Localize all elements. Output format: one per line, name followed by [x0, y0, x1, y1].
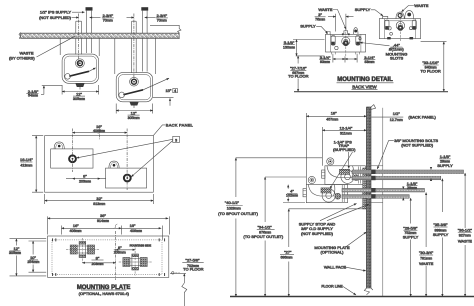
svg-text:29mm: 29mm — [407, 186, 417, 190]
supply pipe 2 cap — [141, 7, 148, 10]
fountain 1 unit rectangle — [51, 149, 93, 168]
fitting 2 vertical body — [132, 254, 139, 270]
svg-text:305mm: 305mm — [128, 116, 140, 120]
svg-text:(BY OTHERS): (BY OTHERS) — [9, 55, 35, 60]
upper unit bowl profile — [327, 166, 353, 178]
leader box3 to button1 — [77, 139, 173, 158]
svg-text:"40-1/2": "40-1/2" — [225, 200, 240, 205]
svg-text:3": 3" — [318, 12, 322, 17]
dim 36 / 914mm — [48, 216, 170, 234]
bolt hole ticks top-right — [159, 238, 164, 241]
fountain 2 centerline — [133, 14, 135, 79]
left dim 27 / 686mm — [288, 209, 290, 297]
upper unit supply stop — [353, 175, 359, 181]
unit2 supply stub — [383, 16, 388, 18]
fountain 2 bubbler — [130, 77, 139, 86]
svg-text:"27-7/16": "27-7/16" — [290, 66, 307, 71]
mounting plate bottom extension — [289, 208, 363, 210]
svg-text:2-3/4": 2-3/4" — [103, 13, 114, 18]
waste pipe 1 continuation below wall — [76, 38, 82, 54]
fountain 1 centerline — [71, 129, 73, 173]
dim 12-1/4 / 311mm — [321, 127, 323, 134]
svg-text:(NOT SUPPLIED): (NOT SUPPLIED) — [401, 142, 434, 147]
leader box3 to button2 — [131, 141, 173, 177]
svg-text:TO FLOOR: TO FLOOR — [420, 68, 440, 73]
supply pipe 1 below wall — [87, 38, 92, 53]
unit2 bubbler hump — [405, 11, 414, 19]
svg-text:16": 16" — [73, 223, 79, 228]
svg-text:"35-3/8": "35-3/8" — [433, 222, 448, 227]
svg-text:406mm: 406mm — [93, 129, 105, 133]
dim 32 / 813mm bottom — [45, 194, 154, 204]
right dim line upper supply 35-3/8 — [441, 179, 443, 297]
lower unit supply stop — [335, 193, 341, 199]
wall section (hatched band) — [21, 33, 180, 38]
svg-text:254mm: 254mm — [27, 260, 39, 264]
fitting 1 cross: horizontal body — [71, 246, 95, 253]
dim 16 / 406mm left span — [62, 226, 163, 240]
fitting 2 left hatched block — [123, 258, 130, 267]
floor reference line (back view) — [294, 91, 448, 93]
lower unit supply fitting (dark) — [321, 188, 331, 193]
dim 18 / 457mm — [305, 113, 307, 120]
svg-text:WASTE: WASTE — [414, 3, 428, 8]
unit1 bubbler hump — [353, 28, 358, 35]
datum hole at plate lower right — [172, 272, 174, 274]
svg-text:"29-5/8": "29-5/8" — [403, 225, 418, 230]
svg-text:SUPPLY: SUPPLY — [437, 163, 453, 168]
unit2 dark feet — [387, 37, 391, 39]
svg-text:406mm: 406mm — [70, 229, 82, 233]
wall cut lines at unit levels — [371, 166, 383, 203]
svg-text:TO FLOOR: TO FLOOR — [183, 267, 203, 272]
lower waste bolt through wall — [342, 188, 425, 192]
upper waste bolt through wall — [352, 170, 464, 174]
dim 4 / 102mm lower spout — [287, 185, 289, 202]
fountain 1 drain — [75, 83, 84, 87]
svg-text:BACK PANEL: BACK PANEL — [166, 123, 194, 128]
svg-text:76mm: 76mm — [315, 17, 325, 21]
fountain 2 unit rectangle — [106, 168, 147, 188]
svg-text:"34-1/2": "34-1/2" — [258, 225, 273, 230]
fitting 2 centerlines — [119, 261, 152, 263]
fitting 1 right hatched block — [88, 245, 95, 254]
unit1 trap — [342, 37, 350, 45]
bolt hole ticks bottom-left — [53, 273, 56, 276]
upper unit supply fitting (dark) — [340, 169, 350, 174]
dim 5-1/8 / 130mm — [293, 39, 325, 41]
svg-text:FLOOR LINE: FLOOR LINE — [321, 285, 343, 289]
fitting 2 top cap — [132, 254, 139, 257]
svg-text:WALL FACE: WALL FACE — [324, 265, 346, 270]
svg-text:1-1/8": 1-1/8" — [407, 181, 418, 186]
wall bottom break — [364, 288, 373, 295]
supply pipe 1 — [87, 11, 92, 34]
wall section (vertical hatched strip) — [367, 107, 371, 288]
svg-text:83mm: 83mm — [320, 60, 330, 64]
back panel outline — [45, 136, 154, 193]
svg-text:WASTE: WASTE — [318, 7, 332, 12]
svg-text:"27": "27" — [284, 250, 292, 255]
svg-text:2-3/4": 2-3/4" — [157, 13, 168, 18]
extension upper unit front — [321, 134, 323, 166]
spout outlet extension upper — [236, 157, 322, 159]
svg-text:(TO SPOUT OUTLET): (TO SPOUT OUTLET) — [218, 211, 259, 216]
svg-text:(SUPPLIED): (SUPPLIED) — [333, 147, 356, 152]
svg-text:781mm: 781mm — [420, 256, 432, 260]
svg-text:"27-5/8": "27-5/8" — [185, 257, 200, 262]
wall right break and step line — [150, 25, 181, 39]
dim 8 / 203mm middle — [72, 178, 100, 180]
fitting 1 top cap — [79, 242, 86, 245]
svg-text:1029mm: 1029mm — [227, 206, 241, 210]
spout outlet extension lower — [265, 176, 306, 178]
svg-text:4: 4 — [174, 89, 176, 93]
svg-text:203mm: 203mm — [114, 251, 126, 255]
fountain 1 basin outer — [62, 54, 99, 83]
fountain 2 button — [124, 175, 131, 182]
hidden line right of wall — [382, 108, 384, 297]
leader waste to pipe1 — [37, 36, 76, 57]
svg-text:305mm: 305mm — [9, 251, 21, 255]
svg-text:12-1/4": 12-1/4" — [340, 125, 353, 130]
svg-text:54mm: 54mm — [28, 94, 38, 98]
dim 12 / 305mm fountain2 — [116, 104, 153, 114]
svg-text:8": 8" — [96, 255, 100, 260]
unit1 drain hole — [335, 46, 338, 49]
lower unit bowl profile — [308, 184, 334, 196]
bolt nuts at wall face — [371, 170, 375, 174]
svg-text:SLOTS: SLOTS — [390, 55, 403, 60]
upper supply bolt through wall — [352, 176, 441, 180]
fountain 2 basin outer — [116, 73, 153, 102]
svg-text:SUPPLY: SUPPLY — [433, 232, 449, 237]
svg-text:"30-3/4": "30-3/4" — [419, 250, 434, 255]
unit1 left mounting slot — [331, 36, 335, 46]
unit2 left mounting slot — [385, 20, 389, 30]
panel centerline — [99, 129, 101, 141]
unit1 slot stubs below box — [332, 52, 360, 54]
svg-text:457mm: 457mm — [326, 117, 338, 121]
lower unit spout front — [303, 189, 306, 197]
boxed 3 — [173, 136, 180, 142]
lower unit trap circle — [322, 189, 335, 202]
svg-text:BACK VIEW: BACK VIEW — [352, 84, 377, 89]
dim 8 / 203mm fitting1 to centerline — [82, 262, 115, 264]
svg-text:813mm: 813mm — [93, 202, 105, 206]
svg-text:3: 3 — [175, 138, 177, 142]
bolt hole ticks bottom-right — [159, 273, 164, 276]
dim 27-7/16 / 697mm TO FLOOR — [297, 56, 299, 92]
wall left break — [19, 32, 21, 39]
left dim 40-1/2 to spout outlet — [235, 158, 237, 297]
unit1 right mounting slot — [356, 36, 360, 46]
mounting plate outline — [48, 236, 169, 277]
supply pipe 2 — [142, 11, 147, 34]
right dim line upper waste 36-1/2 — [464, 173, 466, 297]
unit2 right mounting slot — [412, 20, 416, 30]
svg-text:SUPPLY: SUPPLY — [403, 235, 419, 240]
plate centerline — [115, 231, 117, 280]
svg-text:18": 18" — [331, 111, 337, 116]
dim 16 / 406mm top — [72, 132, 127, 134]
svg-text:SUPPLY: SUPPLY — [355, 7, 371, 12]
waste pipe 2 continuation — [132, 38, 137, 73]
dim 33-1/16 / 840mm TO FLOOR — [443, 42, 445, 92]
unit1 trap centerline — [345, 29, 347, 57]
dim 12 / 305mm fountain1 — [62, 85, 99, 95]
svg-text:70mm: 70mm — [103, 19, 113, 23]
dim 12 / 305mm plate height — [10, 239, 47, 276]
upper unit side profile — [325, 166, 366, 185]
svg-text:(OPTIONAL, HAWS 6700.4): (OPTIONAL, HAWS 6700.4) — [79, 291, 130, 296]
extension 18in line down — [305, 120, 307, 185]
svg-text:311mm: 311mm — [340, 131, 352, 135]
fountain 2 centerline — [126, 129, 128, 191]
supply pipe 1 cap — [86, 7, 93, 10]
svg-text:15°: 15° — [165, 88, 171, 93]
fitting 1 vertical body — [79, 242, 86, 258]
dim 3-1/4 right — [356, 54, 358, 63]
unit1 supply elbow — [327, 32, 331, 35]
svg-text:12.7mm: 12.7mm — [390, 118, 403, 122]
svg-text:8": 8" — [118, 245, 122, 250]
unit2 drain holes — [388, 27, 391, 30]
supply pipe 2 below wall — [142, 38, 147, 71]
15 deg arrow to ref line — [169, 98, 171, 105]
unit2 right extension — [421, 41, 447, 43]
lower unit side profile — [306, 184, 347, 202]
bolt hole rows (inner dotted rect) — [52, 240, 162, 275]
svg-text:70mm: 70mm — [157, 19, 167, 23]
svg-text:1-1/8": 1-1/8" — [440, 154, 451, 159]
svg-text:32": 32" — [96, 196, 102, 201]
break symbol — [182, 283, 187, 306]
svg-text:TO FLOOR: TO FLOOR — [288, 74, 308, 79]
waste pipe 2 — [132, 21, 137, 33]
fountain 1 button — [69, 155, 76, 162]
right dim line lower supply 29-5/8 — [410, 198, 412, 297]
15 deg reference line — [143, 78, 169, 90]
fountain 1 lever — [69, 71, 89, 76]
fountain 1 bubbler hump — [54, 142, 64, 149]
fitting 2 bottom cap — [132, 267, 139, 270]
svg-text:1/2" IPS SUPPLY: 1/2" IPS SUPPLY — [40, 10, 71, 15]
svg-text:36": 36" — [100, 213, 106, 218]
dim 10 / 254mm hole rows — [29, 241, 47, 272]
unit1 slot bottom extension — [296, 55, 325, 57]
dim 2-1/8 / 54mm — [42, 85, 62, 87]
svg-text:FOUNTAIN SIDE: FOUNTAIN SIDE — [130, 243, 152, 247]
right dim line lower waste 30-3/4 — [425, 193, 427, 297]
dim 3-1/4 left — [333, 54, 345, 63]
svg-text:686mm: 686mm — [281, 256, 293, 260]
fitting 2 cross: horizontal body — [123, 259, 147, 266]
svg-text:"33-1/16": "33-1/16" — [422, 60, 439, 65]
lower unit rear bracket — [342, 185, 344, 202]
svg-text:MOUNTING DETAIL: MOUNTING DETAIL — [337, 77, 393, 83]
dim 27-5/8 / 702mm TO FLOOR — [170, 273, 186, 275]
svg-text:914mm: 914mm — [97, 219, 109, 223]
svg-text:(OPTIONAL): (OPTIONAL) — [321, 250, 345, 255]
dim 1/2 12.7mm back panel — [371, 116, 403, 118]
fitting 2 right hatched block — [140, 258, 147, 267]
svg-text:(NOT SUPPLIED): (NOT SUPPLIED) — [39, 15, 72, 20]
svg-text:16-1/4": 16-1/4" — [20, 157, 33, 162]
fountain 2 drain — [130, 102, 139, 106]
floor line — [230, 296, 474, 298]
svg-text:130mm: 130mm — [283, 45, 295, 49]
upper unit trap circle — [341, 170, 354, 183]
fountain 1 housing edges — [60, 38, 99, 56]
boxed 4 — [173, 89, 178, 93]
upper unit spout front — [322, 170, 325, 178]
fountain 1 centerline — [78, 14, 80, 67]
svg-text:5-1/8": 5-1/8" — [284, 40, 295, 45]
svg-text:"36-1/2": "36-1/2" — [458, 227, 473, 232]
fitting 1 centerlines — [66, 249, 99, 251]
dim 16 / 406mm right span — [121, 227, 161, 229]
fountain 1 bubbler — [76, 59, 85, 68]
svg-text:SUPPLY: SUPPLY — [300, 24, 316, 29]
dim 16-1/4 / 413mm left — [32, 136, 43, 193]
svg-text:203mm: 203mm — [92, 262, 104, 266]
leader to supply pipe 1 — [72, 11, 85, 13]
lower unit bubbler — [308, 176, 315, 183]
fountain 2 bubbler hump — [109, 161, 119, 168]
svg-text:927mm: 927mm — [459, 234, 471, 238]
fitting 1 left hatched block — [70, 245, 77, 254]
fountain 2 lever — [123, 90, 143, 95]
svg-text:102mm: 102mm — [286, 193, 298, 197]
dim 2-3/4 70mm unit1 — [72, 17, 79, 19]
svg-text:1/2": 1/2" — [393, 111, 401, 116]
svg-text:406mm: 406mm — [130, 229, 142, 233]
unit2 trap centerline — [399, 14, 401, 42]
fountain 2 basin inner rim — [118, 75, 150, 100]
dim 2-3/4 70mm unit2 — [127, 17, 134, 19]
left dim 34-1/2 to spout outlet — [264, 177, 266, 297]
svg-text:16": 16" — [130, 223, 136, 228]
15 deg horizontal ref line — [153, 96, 174, 98]
dim 8 / 203mm centerline to fitting2 — [116, 249, 136, 251]
unit2 body (upper unit, back view) — [379, 19, 420, 39]
svg-text:(NOT SUPPLIED): (NOT SUPPLIED) — [301, 231, 334, 236]
upper unit bubbler — [327, 158, 334, 165]
svg-text:WASTE: WASTE — [458, 238, 472, 243]
fountain 1 basin inner rim — [64, 56, 96, 81]
bolt hole ticks top-left — [53, 238, 56, 241]
svg-text:8": 8" — [83, 173, 87, 178]
svg-text:305mm: 305mm — [73, 97, 85, 101]
svg-text:83mm: 83mm — [365, 60, 375, 64]
unit1 waste stub — [344, 31, 348, 35]
svg-text:(BACK PANEL): (BACK PANEL) — [408, 114, 436, 119]
unit2 waste dome — [396, 12, 404, 19]
dim 3 / 76mm — [336, 14, 346, 32]
svg-text:203mm: 203mm — [79, 180, 91, 184]
svg-text:WASTE: WASTE — [419, 261, 433, 266]
lower supply bolt through wall — [342, 195, 409, 199]
unit1 body (lower unit, back view) — [326, 34, 366, 52]
waste pipe 1 — [76, 21, 82, 33]
wall top break — [367, 105, 376, 110]
svg-text:413mm: 413mm — [20, 163, 32, 167]
mounting plate side (vertical bar) — [363, 168, 367, 209]
svg-text:(TO SPOUT OUTLET): (TO SPOUT OUTLET) — [243, 234, 284, 239]
fountain 2 housing edges — [115, 38, 156, 74]
upper unit rear bracket — [358, 167, 360, 184]
fitting 1 bottom cap — [79, 255, 86, 258]
unit2 trap — [396, 21, 404, 29]
